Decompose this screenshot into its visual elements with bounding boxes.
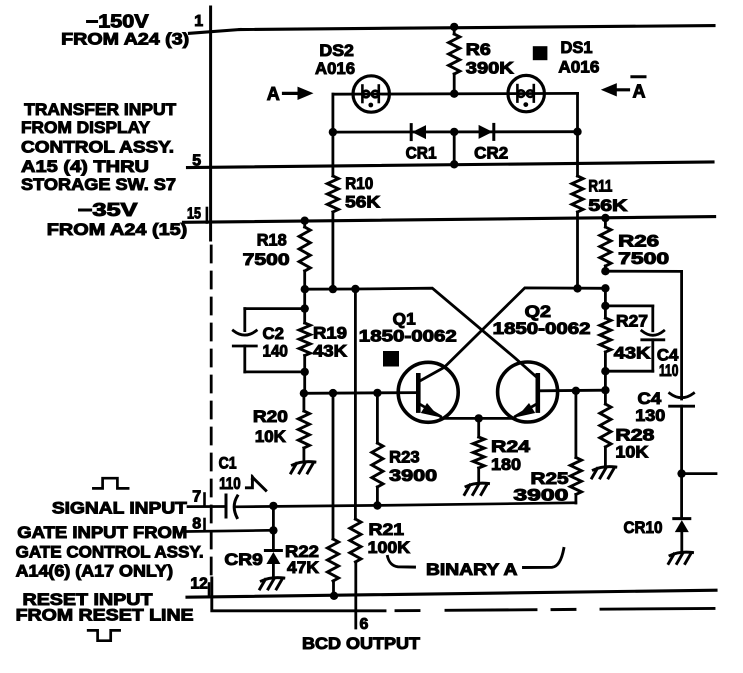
svg-text:R21: R21 — [369, 521, 405, 539]
svg-text:A14(6) (A17 ONLY): A14(6) (A17 ONLY) — [16, 562, 174, 581]
svg-text:180: 180 — [491, 456, 521, 474]
svg-text:12: 12 — [190, 576, 207, 593]
svg-text:A: A — [633, 82, 646, 102]
svg-text:FROM DISPLAY: FROM DISPLAY — [21, 118, 151, 137]
svg-text:−150V: −150V — [86, 12, 149, 32]
svg-text:390K: 390K — [466, 60, 514, 78]
svg-text:C4: C4 — [638, 390, 663, 408]
svg-text:R20: R20 — [253, 408, 288, 426]
svg-text:FROM A24 (15): FROM A24 (15) — [47, 220, 188, 239]
svg-text:R26: R26 — [618, 233, 659, 251]
svg-text:43K: 43K — [313, 343, 347, 361]
svg-text:3900: 3900 — [513, 486, 568, 504]
svg-text:R10: R10 — [345, 175, 373, 193]
svg-text:110: 110 — [219, 475, 241, 493]
svg-text:7500: 7500 — [618, 250, 669, 268]
svg-text:7: 7 — [192, 489, 201, 506]
svg-text:A016: A016 — [315, 60, 355, 78]
svg-text:DS2: DS2 — [319, 42, 354, 60]
svg-text:C2: C2 — [263, 325, 284, 343]
svg-text:1850-0062: 1850-0062 — [359, 328, 457, 346]
svg-text:3900: 3900 — [389, 467, 437, 485]
svg-text:Q1: Q1 — [393, 311, 416, 329]
svg-text:−35V: −35V — [78, 200, 138, 220]
svg-text:130: 130 — [635, 407, 665, 425]
svg-text:R18: R18 — [257, 231, 287, 249]
svg-text:15: 15 — [187, 206, 201, 223]
svg-text:43K: 43K — [614, 345, 651, 363]
svg-text:10K: 10K — [615, 444, 648, 462]
svg-text:R25: R25 — [531, 470, 569, 488]
svg-text:1: 1 — [194, 13, 203, 30]
svg-text:R6: R6 — [466, 41, 491, 59]
svg-text:56K: 56K — [345, 194, 380, 212]
svg-text:FROM A24 (3): FROM A24 (3) — [61, 30, 189, 49]
svg-text:SIGNAL INPUT: SIGNAL INPUT — [52, 499, 188, 518]
svg-text:8: 8 — [192, 515, 201, 532]
svg-text:7500: 7500 — [243, 251, 290, 269]
svg-text:140: 140 — [263, 343, 288, 361]
svg-text:110: 110 — [659, 362, 678, 380]
svg-text:1850-0062: 1850-0062 — [493, 320, 591, 338]
svg-text:A15 (4) THRU: A15 (4) THRU — [21, 157, 149, 176]
svg-text:DS1: DS1 — [561, 39, 593, 57]
svg-text:Q2: Q2 — [525, 303, 551, 321]
svg-text:TRANSFER INPUT: TRANSFER INPUT — [24, 100, 177, 119]
svg-text:R24: R24 — [491, 438, 531, 456]
svg-text:R28: R28 — [615, 426, 654, 444]
svg-text:100K: 100K — [368, 539, 410, 557]
svg-text:CR1: CR1 — [406, 145, 437, 163]
svg-text:CR9: CR9 — [224, 551, 262, 569]
svg-text:BCD OUTPUT: BCD OUTPUT — [302, 635, 420, 653]
svg-text:56K: 56K — [588, 197, 627, 215]
svg-text:CR10: CR10 — [624, 519, 663, 537]
svg-text:R23: R23 — [389, 449, 420, 467]
svg-text:10K: 10K — [255, 428, 286, 446]
svg-text:R27: R27 — [616, 312, 648, 330]
svg-text:BINARY A: BINARY A — [426, 561, 518, 579]
svg-text:R19: R19 — [313, 325, 347, 343]
svg-text:A: A — [267, 84, 280, 104]
svg-text:GATE CONTROL ASSY.: GATE CONTROL ASSY. — [16, 543, 204, 562]
svg-text:A016: A016 — [558, 59, 599, 77]
svg-text:6: 6 — [360, 616, 369, 633]
svg-text:R11: R11 — [588, 178, 612, 196]
svg-text:CONTROL ASSY.: CONTROL ASSY. — [21, 138, 174, 157]
svg-text:CR2: CR2 — [474, 145, 508, 163]
svg-text:47K: 47K — [287, 559, 319, 577]
svg-text:FROM RESET LINE: FROM RESET LINE — [16, 606, 194, 625]
svg-text:5: 5 — [192, 153, 201, 170]
svg-text:GATE INPUT FROM: GATE INPUT FROM — [17, 523, 187, 542]
svg-text:STORAGE SW. S7: STORAGE SW. S7 — [21, 175, 176, 194]
svg-text:C1: C1 — [219, 454, 237, 472]
